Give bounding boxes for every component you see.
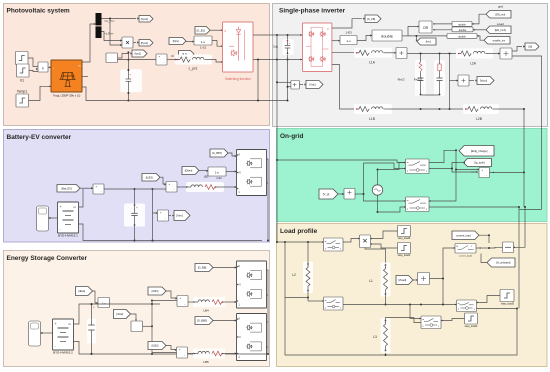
goto tag Id xyxy=(525,43,539,50)
panel: Photovoltaic system area xyxy=(4,4,270,126)
wire L1B bus to L2B xyxy=(390,108,464,110)
svg-text:[V_g]: [V_g] xyxy=(323,192,330,196)
from tag ILB3 xyxy=(142,174,160,182)
svg-text:1-u: 1-u xyxy=(346,39,351,43)
svg-text:[ILB2]: [ILB2] xyxy=(152,344,159,348)
breaker block load 1 xyxy=(324,238,344,251)
small block right load xyxy=(503,242,514,253)
wire to Id tag xyxy=(512,47,522,52)
wire inverter bus into breaker 1 xyxy=(277,160,406,163)
svg-text:Photovoltaic system: Photovoltaic system xyxy=(7,8,70,15)
wire battery plus to bus xyxy=(79,189,84,207)
from tag Bat_EV xyxy=(57,185,80,193)
inductor branch L_pv1 xyxy=(175,55,212,65)
wire bridge N to 1-E3 delay xyxy=(332,40,340,42)
svg-text:-: - xyxy=(486,174,487,177)
wire Bat_EV to sum xyxy=(80,187,93,189)
svg-text:[ILB3]: [ILB3] xyxy=(146,175,153,179)
step block step_load3 xyxy=(500,290,514,302)
controlled source block xyxy=(344,189,355,200)
resistor L3 xyxy=(381,318,391,353)
delay block dbat xyxy=(98,298,110,308)
step block step_load1 xyxy=(398,243,411,254)
panel: Energy Storage Converter area xyxy=(4,251,270,367)
sum block 2 xyxy=(166,182,177,193)
from tag Dbev xyxy=(182,167,199,175)
svg-text:[G_FB]: [G_FB] xyxy=(367,17,375,21)
sum block Vev measure xyxy=(158,210,169,221)
delay block nbat xyxy=(131,321,143,332)
svg-text:L3: L3 xyxy=(373,335,377,339)
svg-text:double: double xyxy=(459,29,467,32)
svg-text:LB5: LB5 xyxy=(203,360,209,364)
svg-text:[Ig_axle]: [Ig_axle] xyxy=(474,161,484,165)
svg-text:Battery-EV converter: Battery-EV converter xyxy=(7,134,72,141)
svg-text:<I_Pv>: <I_Pv> xyxy=(104,32,114,36)
wire snubber ground bus xyxy=(421,94,440,96)
wire LB4 to converter1 xyxy=(223,301,237,303)
from tag EN_inv1 xyxy=(486,26,511,34)
data conversion block double xyxy=(372,30,402,41)
wire rail up to switching minus xyxy=(257,60,259,101)
wire 1-E3 to double xyxy=(357,36,372,41)
from tag Vload xyxy=(396,276,413,285)
svg-text:-: - xyxy=(163,62,164,65)
wire inverter bus into load panel xyxy=(277,160,285,242)
RL branch L1A xyxy=(354,48,392,58)
wire L3 top xyxy=(386,318,415,321)
svg-text:[G_BB]: [G_BB] xyxy=(198,266,207,270)
wire converter1 right xyxy=(267,270,269,354)
wire sum to bus xyxy=(104,188,135,190)
wire breaker4 inputs xyxy=(410,305,421,319)
wires double blocks to OR xyxy=(433,23,452,25)
wire battery2 to SOC xyxy=(41,332,53,334)
product block load xyxy=(360,235,371,248)
goto tag G_BB0 xyxy=(195,317,213,325)
wires step loads to product xyxy=(371,231,398,239)
wire source to columns xyxy=(355,163,364,194)
svg-text:1-S1: 1-S1 xyxy=(200,46,207,50)
wire right column down xyxy=(512,56,542,209)
svg-text:N: N xyxy=(239,283,241,287)
RC snubber branch RivCf71 xyxy=(434,60,445,96)
from tag IL1 xyxy=(179,51,195,58)
wire gain to PV array xyxy=(48,66,51,68)
svg-text:L2B: L2B xyxy=(476,117,482,121)
svg-text:[dbat]: [dbat] xyxy=(78,289,85,293)
wire battery2 minus rail xyxy=(74,342,161,355)
svg-text:-: - xyxy=(165,218,166,221)
wire grid return bus xyxy=(519,208,542,210)
measure block Vload xyxy=(418,273,430,285)
step block step_load2 xyxy=(465,313,478,324)
panel: Single-phase inverter area xyxy=(273,4,548,127)
inductor branch LB4 xyxy=(193,297,225,307)
svg-text:+: + xyxy=(307,264,309,268)
current breaker block load xyxy=(455,244,476,254)
MPPT block xyxy=(106,53,118,63)
wire battery to EV charger xyxy=(49,217,58,219)
svg-text:current_load1: current_load1 xyxy=(459,255,473,258)
from tag Dpv xyxy=(169,38,186,45)
sum block battery voltage xyxy=(93,184,104,194)
wire bridge AC1 to L1A xyxy=(332,51,355,53)
bottom rail battery panel xyxy=(135,240,263,242)
svg-text:[Inv]: [Inv] xyxy=(426,40,431,44)
PV array block YingLi 250P-29b x 10 xyxy=(51,60,82,92)
svg-text:BYD-HVM16.2: BYD-HVM16.2 xyxy=(53,351,73,355)
svg-text:+: + xyxy=(385,265,387,269)
capacitor branch battery dc link xyxy=(124,204,145,227)
breaker block load 3 xyxy=(457,300,477,312)
half-bridge converter battery xyxy=(237,150,267,196)
svg-text:L1A: L1A xyxy=(369,61,376,65)
wire Vload block right xyxy=(430,279,444,305)
rounded block SOC display xyxy=(29,321,41,346)
goto tag G_FB xyxy=(365,15,381,23)
goto tag Vpcc xyxy=(477,77,494,85)
goto tag Vdc voltage xyxy=(299,84,303,86)
wire DC bus vertical 2 xyxy=(287,35,289,101)
svg-text:[G_BB0]: [G_BB0] xyxy=(197,319,207,323)
EV charger block xyxy=(37,206,49,231)
svg-text:+: + xyxy=(93,306,95,310)
wire bus to breaker3 xyxy=(455,304,457,306)
data conversion double row3 xyxy=(447,34,477,39)
wire current_load xyxy=(479,235,489,243)
wire N_onboard up xyxy=(481,254,487,263)
svg-text:1-u: 1-u xyxy=(215,171,220,175)
wire step3 to breaker3 xyxy=(477,296,501,303)
svg-text:Energy Storage Converter: Energy Storage Converter xyxy=(7,255,88,262)
sum block grid current xyxy=(479,168,490,178)
wire double to OR xyxy=(408,27,419,36)
RL branch L1B xyxy=(354,104,392,114)
wires EN tags to double blocks xyxy=(472,14,486,24)
goto tag Ipv1 xyxy=(132,50,147,57)
from tag enable_inv xyxy=(484,37,510,45)
svg-text:BYD-HVM16.1: BYD-HVM16.1 xyxy=(58,234,78,238)
svg-text:Load: Load xyxy=(497,22,504,26)
mux demux black bar upper xyxy=(96,13,102,25)
svg-text:+: + xyxy=(130,73,132,77)
wire to Ig_axle xyxy=(458,162,464,164)
resistor L2 xyxy=(303,262,313,294)
wire converter right to edge xyxy=(267,159,269,241)
svg-text:[G_BB7]: [G_BB7] xyxy=(212,151,222,155)
svg-text:RivCf: RivCf xyxy=(398,78,405,82)
svg-text:N: N xyxy=(239,335,241,339)
svg-text:step_load1: step_load1 xyxy=(398,253,411,257)
goto tag G_BB3 xyxy=(210,149,228,157)
wire mux to product xyxy=(102,32,123,41)
svg-text:[Ipv1]: [Ipv1] xyxy=(135,52,142,56)
wire L2A to outp block xyxy=(491,53,500,55)
wire ILB2 to sum4 xyxy=(166,346,177,350)
svg-text:1-E3: 1-E3 xyxy=(345,31,352,35)
wire switching out- to inverter xyxy=(253,59,302,61)
svg-text:[Vpv1]: [Vpv1] xyxy=(141,17,149,21)
wire into small block from column xyxy=(514,207,526,247)
svg-text:double: double xyxy=(381,34,394,39)
wire down to sum input xyxy=(456,150,479,169)
AC source circle xyxy=(377,170,379,186)
unit delay LB3 1-S2 xyxy=(208,167,226,176)
svg-text:Ir1: Ir1 xyxy=(20,79,24,83)
data conversion double row2 xyxy=(452,27,473,32)
svg-text:step_load2: step_load2 xyxy=(465,324,478,328)
wire step2 to breaker4 xyxy=(441,319,465,321)
svg-text:[G_B1]: [G_B1] xyxy=(197,28,205,32)
goto tag current_load xyxy=(452,231,479,240)
source block Ir step 1 xyxy=(16,52,29,65)
wire to Vpcc tag xyxy=(469,80,474,82)
wire lower breaker inputs xyxy=(364,194,406,201)
breaker block grid lower xyxy=(406,197,430,212)
wire RLC to right block xyxy=(476,247,489,249)
svg-text:[N_onboard]: [N_onboard] xyxy=(496,261,511,265)
bus column right xyxy=(151,301,153,355)
wire nbat block out xyxy=(143,325,153,327)
wire V_g to gain xyxy=(338,193,344,195)
svg-text:On-grid: On-grid xyxy=(280,133,303,140)
wire dc bus to Vdc block xyxy=(277,81,291,83)
svg-text:m: m xyxy=(422,319,424,321)
breaker block load 2 xyxy=(324,297,344,310)
goto tag ENg_charge xyxy=(459,146,494,157)
wire LB5 to converter2 xyxy=(223,353,237,355)
mid bus wire xyxy=(343,304,457,306)
svg-text:L_pv1: L_pv1 xyxy=(189,67,198,71)
battery block BYD-HVM16.1 xyxy=(58,202,79,233)
from tag N_onboard xyxy=(487,258,515,267)
half-bridge converter energy 2 xyxy=(237,314,267,361)
svg-text:enable_inv: enable_inv xyxy=(493,38,506,42)
svg-text:1-u: 1-u xyxy=(102,301,106,305)
capacitor branch energy dc link xyxy=(87,319,96,344)
svg-text:Single-phase inverter: Single-phase inverter xyxy=(279,8,346,15)
svg-text:-: - xyxy=(184,355,185,358)
svg-text:step_load3: step_load3 xyxy=(501,302,514,306)
step block step_load4 xyxy=(398,226,411,237)
wire ac top to breaker1 xyxy=(378,163,406,170)
svg-text:[Ppv1]: [Ppv1] xyxy=(141,41,149,45)
svg-text:m: m xyxy=(325,241,327,243)
sum block LB5 xyxy=(177,347,188,358)
svg-text:Switching function: Switching function xyxy=(225,77,251,81)
svg-text:double: double xyxy=(458,23,466,26)
goto tag Ppv1 xyxy=(139,40,153,47)
svg-text:double: double xyxy=(458,35,466,38)
capacitor branch PV dc link xyxy=(120,69,142,92)
svg-text:YingLi 250P-29b x 10: YingLi 250P-29b x 10 xyxy=(53,94,81,98)
svg-text:m: m xyxy=(458,303,460,305)
svg-text:step_load4: step_load4 xyxy=(398,236,411,240)
svg-text:[nbat]: [nbat] xyxy=(116,312,123,316)
svg-text:[Vload]: [Vload] xyxy=(398,278,406,282)
logic OR block xyxy=(419,21,432,33)
wire Dpv to 1-S1 xyxy=(186,41,194,43)
svg-text:m: m xyxy=(407,200,409,202)
svg-text:current_load: current_load xyxy=(456,233,471,237)
wire L1 bottom to bus xyxy=(385,295,387,305)
wire Temp1 to PV array xyxy=(29,86,52,100)
wire 1-S2 to converter N xyxy=(226,171,237,173)
svg-text:[EN_inv]: [EN_inv] xyxy=(495,12,505,16)
wire small block to RLC xyxy=(489,246,503,249)
wire product down to L1 xyxy=(365,248,386,265)
current measurement block right xyxy=(500,48,512,59)
switching function converter block xyxy=(223,22,254,72)
wire DC bus vertical 1 xyxy=(276,35,278,160)
svg-text:L2: L2 xyxy=(292,273,296,277)
svg-text:+: + xyxy=(136,206,138,210)
source block Temp1 step xyxy=(16,94,29,107)
inductor branch LB5 xyxy=(193,349,225,359)
from tag dbat xyxy=(76,287,93,296)
capacitor Cdc xyxy=(283,39,294,55)
wire L2B column to sum xyxy=(490,171,525,173)
goto tag Ig_axle xyxy=(464,159,492,167)
wire sum inputs xyxy=(471,171,478,173)
svg-text:Cdc: Cdc xyxy=(273,45,279,49)
from tag nbat xyxy=(114,310,131,319)
wire double out xyxy=(402,35,408,37)
from tag ILB2 xyxy=(148,342,166,350)
wire down to breaker2 return xyxy=(429,170,456,202)
mux demux black bar lower xyxy=(96,26,102,38)
panel: Battery-EV converter area xyxy=(4,130,270,243)
source block Ir step 2 xyxy=(17,64,30,77)
gain block k xyxy=(38,62,48,72)
svg-text:+: + xyxy=(55,322,57,326)
wire G_BB3 to converter g xyxy=(228,153,237,156)
from tag EN_inv xyxy=(486,11,511,19)
wire Ir1 steps to gain xyxy=(28,58,38,67)
wire left to breaker L2 top xyxy=(285,241,324,243)
from tag V_g xyxy=(319,189,338,199)
voltage measurement Vdc block xyxy=(291,81,300,90)
voltage measure branch right xyxy=(449,54,451,110)
wire bus up to current breaker xyxy=(443,248,455,279)
current measure block after L1A xyxy=(390,52,396,54)
svg-text:[EN_inv1]: [EN_inv1] xyxy=(495,28,507,32)
svg-text:[Vdc]: [Vdc] xyxy=(310,83,316,87)
wire mux to Vpv1 tag xyxy=(102,18,137,20)
wire PV panel bottom rail to edge xyxy=(82,75,88,77)
wire feedback into PV sum xyxy=(118,59,157,61)
svg-text:LB3: LB3 xyxy=(204,175,209,179)
wire breaker4 down to L3 xyxy=(414,318,421,323)
wire product to Ppv1 tag xyxy=(133,42,136,44)
wire PV array minus rail xyxy=(82,87,288,101)
wire switching out+ to inverter xyxy=(253,34,302,36)
svg-text:1-u: 1-u xyxy=(201,40,206,44)
wire load bottom loop left xyxy=(285,298,386,356)
goto tag G_BB xyxy=(195,264,213,272)
svg-text:-: - xyxy=(100,191,101,194)
wire G_BB0 to converter2 xyxy=(213,320,237,322)
svg-text:<V_Pv>: <V_Pv> xyxy=(104,19,115,23)
goto tag Vpv1 xyxy=(139,16,153,23)
wire L1A bus to L2A xyxy=(407,53,457,55)
svg-text:RivCf1: RivCf1 xyxy=(414,78,423,82)
svg-text:LB4: LB4 xyxy=(203,309,209,313)
svg-text:[Vev]: [Vev] xyxy=(176,214,182,218)
wire L_pv1 to switching function xyxy=(210,60,223,63)
svg-text:+: + xyxy=(60,205,62,209)
wire L3 bottom rail xyxy=(386,309,518,356)
wire 1-S1 to switching function xyxy=(212,41,223,47)
panel: Load profile area xyxy=(277,224,548,367)
wire bridge g-port to G_FB xyxy=(332,19,362,28)
sum block LB4 xyxy=(177,296,188,307)
svg-text:Temp1: Temp1 xyxy=(17,90,27,94)
from tag ILB1 xyxy=(148,287,166,295)
wire breaker2 right to load column xyxy=(429,207,519,246)
svg-text:-: - xyxy=(173,189,174,192)
inductor branch LB3 xyxy=(186,182,224,192)
wire LB3 to converter xyxy=(222,186,237,188)
svg-text:m: m xyxy=(407,162,409,164)
H-bridge inverter block xyxy=(302,23,332,72)
svg-text:L2A: L2A xyxy=(470,62,477,66)
wire G_BB to converter1 xyxy=(213,267,237,269)
product block x xyxy=(122,37,133,48)
svg-text:m: m xyxy=(325,300,327,302)
svg-text:[Vpcc]: [Vpcc] xyxy=(480,79,487,83)
wire G_B1 to switching function g xyxy=(210,29,223,31)
wire L2B right down into on-grid xyxy=(497,109,524,172)
breaker block grid upper xyxy=(406,159,430,174)
goto tag G_B1 xyxy=(195,27,210,35)
svg-text:[Dbev]: [Dbev] xyxy=(185,169,193,173)
wire converter2 right xyxy=(267,321,269,323)
unit delay block 1-S1 xyxy=(194,36,212,45)
RL branch L2B xyxy=(463,104,499,114)
wire bridge AC2 down to L1B xyxy=(332,65,355,110)
svg-text:L1: L1 xyxy=(369,279,373,283)
svg-text:Load profile: Load profile xyxy=(280,228,318,235)
wire breaker1 to product xyxy=(343,239,360,243)
breaker block load 4 xyxy=(421,316,441,329)
panel: On-grid area xyxy=(277,129,548,222)
bottom rail to converter xyxy=(160,353,268,355)
resistor L1 xyxy=(381,263,391,297)
svg-text:[Dpv]: [Dpv] xyxy=(173,39,179,43)
wire nbat to block xyxy=(131,314,137,321)
svg-text:+: + xyxy=(385,320,387,324)
wire ILB1 to sum3 xyxy=(166,291,177,298)
svg-text:N: N xyxy=(239,171,241,175)
RL branch L2A xyxy=(456,49,493,59)
wire battery2 plus rail xyxy=(74,304,161,324)
goto tag Vev xyxy=(174,211,190,221)
svg-text:OR: OR xyxy=(423,26,429,30)
wire dbat to delay xyxy=(93,291,99,303)
wire battery minus to bottom rail xyxy=(79,224,135,241)
svg-text:L1B: L1B xyxy=(369,117,375,121)
svg-text:[ILB1]: [ILB1] xyxy=(152,289,159,293)
goto tag Inv xyxy=(417,38,436,45)
wire ILB3 to sum2 xyxy=(160,177,166,184)
svg-text:1-S2: 1-S2 xyxy=(216,176,222,180)
svg-text:grid: grid xyxy=(498,5,503,9)
node DC bus left xyxy=(276,34,278,36)
wire breaker3 right down xyxy=(477,308,518,310)
half-bridge converter energy 1 xyxy=(237,261,267,308)
